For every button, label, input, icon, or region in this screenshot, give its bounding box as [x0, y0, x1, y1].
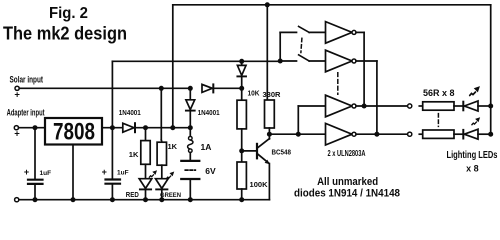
junction: inv3/inv4 input tie: [296, 132, 301, 137]
svg-text:6V: 6V: [205, 166, 216, 176]
svg-text:diodes 1N914 / 1N4148: diodes 1N914 / 1N4148: [294, 187, 400, 199]
diode D3 1N4001 (solar to battery): [186, 88, 220, 127]
wire: output bus A (inv1+inv3): [363, 32, 365, 106]
wire: V+ top rail: [173, 4, 491, 6]
resistor R7 56R row 2: [419, 130, 462, 138]
battery B1 6V: [181, 161, 216, 200]
wire: riser to inverter 3 input: [297, 106, 299, 134]
switch arm: inverter 2 input: [299, 55, 310, 61]
svg-text:BC548: BC548: [272, 149, 292, 156]
svg-text:1K: 1K: [129, 150, 139, 159]
terminal: ground left: [15, 198, 19, 202]
junction: bus A / row 1: [362, 104, 367, 109]
junction: input rail / D4: [239, 59, 244, 64]
wire: adapter/battery line: [136, 127, 190, 129]
junction: battery line / fuse / D3: [188, 125, 193, 130]
wire: 330R feed from top rail: [266, 5, 268, 100]
svg-text:1N4001: 1N4001: [198, 110, 220, 117]
svg-text:56R x 8: 56R x 8: [423, 88, 455, 98]
wire: adapter input to 7808: [19, 127, 45, 129]
junction: ground / red LED: [143, 197, 148, 202]
junction: battery line / red LED feed: [143, 125, 148, 130]
wire: ground rail: [19, 199, 270, 201]
junction: ground / 7808: [71, 197, 76, 202]
inverter U1b: [326, 50, 377, 72]
resistor R3 10K: [237, 88, 260, 151]
transistor Q1 BC548: [242, 134, 291, 200]
wire: solar line right segment: [214, 87, 241, 89]
wire: 7808 ground pin: [72, 145, 74, 200]
LED D8 lighting row 1: [463, 87, 490, 111]
wire: riser from 7808 output to input rail: [111, 61, 113, 127]
terminal: row 1 connector: [408, 104, 412, 108]
junction: ground / C2: [110, 197, 115, 202]
junction: solar line / 10K node: [239, 86, 244, 91]
wire: inverter 3 input: [298, 105, 325, 107]
svg-text:x 8: x 8: [466, 164, 479, 174]
junction: collector node: [267, 132, 272, 137]
svg-text:10K: 10K: [248, 88, 261, 97]
switch arm: inverter 1 input: [299, 26, 310, 32]
svg-text:Lighting LEDs: Lighting LEDs: [447, 150, 498, 161]
svg-text:+: +: [14, 90, 20, 101]
junction: base node: [239, 148, 244, 153]
resistor R6 56R row 1: [419, 102, 462, 110]
junction: 7808 output / C2 / V+ riser: [110, 125, 115, 130]
diode D5 solar series (unmarked 1N914): [202, 84, 212, 92]
diode D4 unmarked (input rail to 10K): [237, 61, 246, 88]
junction: ground / green LED: [159, 197, 164, 202]
junction: LED bus row 2: [488, 132, 493, 137]
wire: output bus B (inv2+inv4): [376, 61, 378, 134]
junction: top rail / 330R feed: [265, 2, 270, 7]
svg-text:1N4001: 1N4001: [119, 110, 141, 117]
LED D9 lighting row 2: [463, 118, 490, 139]
junction: bus B / row 2: [374, 132, 379, 137]
junction: solar line / green LED feed: [159, 86, 164, 91]
wire: green LED feed from solar line: [160, 88, 162, 140]
fuse F1 1A: [188, 128, 212, 160]
regulator U2 7808: [45, 118, 102, 145]
capacitor C1 1uF: [24, 128, 51, 200]
wire: inverter 2 input stub: [280, 60, 296, 62]
svg-text:330R: 330R: [263, 90, 282, 99]
junction: adapter line / C1: [33, 125, 38, 130]
dashed: repeated parallel inputs: [301, 38, 302, 52]
svg-text:1A: 1A: [201, 142, 212, 152]
dashed: repeated LED strings: [437, 114, 439, 127]
resistor R4 330R: [263, 90, 282, 134]
wire: inverter 1 input stub: [280, 31, 296, 33]
svg-text:1uF: 1uF: [40, 170, 52, 177]
junction: solar line / D3 branch: [188, 86, 193, 91]
resistor R5 100K: [237, 151, 268, 200]
terminal: Adapter input: [14, 126, 18, 130]
svg-text:100K: 100K: [250, 182, 268, 189]
wire: inverter 1 input: [309, 31, 325, 33]
svg-text:1uF: 1uF: [117, 170, 129, 177]
svg-text:All unmarked: All unmarked: [317, 176, 378, 188]
junction: ground / C1: [33, 197, 38, 202]
svg-text:RED: RED: [126, 192, 139, 199]
svg-text:2 x ULN2803A: 2 x ULN2803A: [328, 148, 366, 158]
diode D2 1N4001 (7808 output): [123, 123, 134, 132]
wire: V+ left vertical drop to adapter line: [172, 5, 174, 128]
wire: right LED anode bus: [490, 5, 492, 134]
capacitor C2 1uF: [102, 128, 129, 200]
svg-text:+: +: [24, 167, 29, 177]
junction: battery line / V+ riser: [170, 125, 175, 130]
svg-text:+: +: [14, 128, 20, 139]
junction: input rail end node: [278, 59, 283, 64]
svg-text:7808: 7808: [53, 119, 95, 146]
junction: ground / 100K: [239, 197, 244, 202]
terminal: row 2 connector: [408, 132, 412, 136]
junction: LED bus row 1: [488, 104, 493, 109]
wire: inverter 2 input: [309, 60, 325, 62]
LED D7 GREEN: [156, 172, 182, 200]
wire: ULN input rail: [112, 60, 280, 62]
svg-text:The mk2 design: The mk2 design: [3, 24, 127, 44]
wire: solar line left segment: [19, 87, 190, 89]
svg-text:1K: 1K: [168, 142, 178, 151]
inverter U1a: [326, 22, 365, 44]
dashed: more inverters: [337, 73, 339, 94]
LED D6 RED: [126, 171, 157, 200]
svg-text:+: +: [102, 167, 107, 177]
svg-text:Solar input: Solar input: [10, 74, 44, 84]
inverter U1c: [326, 95, 408, 117]
junction: ground / battery: [188, 197, 193, 202]
inverter U1d: [326, 123, 408, 145]
terminal: Solar input: [15, 86, 19, 90]
resistor R2 1K (green LED): [157, 142, 178, 179]
svg-text:Fig. 2: Fig. 2: [49, 5, 88, 22]
resistor R1 1K (red LED): [129, 128, 150, 179]
wire: collector node to inverter 4 input: [269, 133, 325, 135]
wire: 7808 output segment: [102, 127, 123, 129]
svg-text:Adapter input: Adapter input: [7, 107, 45, 117]
wire: branch up to inverter 1 input: [279, 32, 281, 61]
